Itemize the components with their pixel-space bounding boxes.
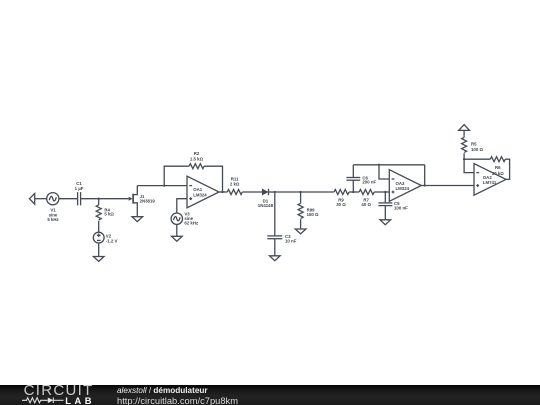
LAB text	[65, 398, 95, 405]
svg-text:40 Ω: 40 Ω	[361, 202, 371, 207]
svg-text:R5: R5	[471, 141, 477, 146]
svg-text:2 kΩ: 2 kΩ	[230, 181, 240, 186]
svg-text:100 nF: 100 nF	[394, 206, 408, 211]
V1 labels	[47, 208, 59, 222]
wire node G down to OA3 minus	[379, 165, 389, 179]
capacitor C6	[346, 165, 360, 192]
R2 labels	[190, 151, 204, 161]
R5 labels	[471, 141, 483, 152]
svg-text:10 nF: 10 nF	[285, 239, 297, 244]
OA2 labels	[483, 175, 497, 185]
capacitor C5	[378, 192, 392, 220]
wire V1 to C1	[59, 198, 78, 200]
ground GND1 (left of V1, pointing left)	[29, 193, 46, 204]
node C (OA1 output)	[221, 191, 223, 193]
wire OA3 feedback top	[353, 164, 424, 166]
wire node J to R6	[464, 158, 490, 160]
capacitor C1	[78, 192, 99, 205]
svg-text:-1.2 V: -1.2 V	[106, 238, 118, 243]
circuitlab logo text	[24, 384, 94, 397]
wire node E to R9	[301, 191, 334, 193]
svg-text:1.5 kΩ: 1.5 kΩ	[190, 156, 204, 161]
C5 labels	[394, 201, 408, 211]
resistor R7	[359, 190, 374, 195]
logo resistor+diode glyph	[21, 396, 67, 405]
op-amp OA3	[389, 170, 421, 202]
OA1 labels	[193, 187, 207, 197]
R11 labels	[230, 176, 240, 186]
OA3 labels	[396, 181, 410, 191]
svg-text:LM324: LM324	[193, 192, 207, 197]
transistor J1 (2N3819 JFET)	[129, 186, 138, 217]
footer bar	[0, 385, 540, 405]
wire R9 to junction F	[349, 191, 359, 193]
ground GND6 (below R99)	[295, 229, 306, 234]
svg-text:2N3819: 2N3819	[140, 199, 156, 204]
wire node I up to feedback top	[424, 165, 426, 186]
V3 labels	[184, 211, 199, 225]
R7 labels	[361, 198, 371, 208]
ground GND4 (below V3)	[172, 236, 183, 241]
resistor R99	[298, 192, 303, 229]
svg-text:62 kHz: 62 kHz	[184, 221, 199, 226]
op-amp OA1	[187, 176, 219, 208]
svg-text:1 µF: 1 µF	[75, 186, 84, 191]
svg-text:30 Ω: 30 Ω	[336, 202, 346, 207]
svg-text:150 Ω: 150 Ω	[307, 212, 319, 217]
resistor R6	[490, 157, 505, 162]
node A (C1/R4/gate junction)	[98, 198, 100, 200]
V2 labels	[106, 234, 118, 244]
node B (drain / feedback junction)	[163, 184, 165, 186]
node D (D1 cathode / C3 junction)	[274, 191, 276, 193]
resistor R5	[462, 137, 467, 159]
C6 labels	[362, 175, 376, 184]
wire J1 drain to OA1 inverting input	[137, 185, 164, 187]
wire OA3 output to OA2 plus	[421, 185, 474, 187]
node I (OA3 output/feedback)	[424, 184, 426, 186]
ground GND2 (below V2)	[93, 243, 104, 261]
footer line 2	[117, 397, 238, 405]
svg-text:1N4148: 1N4148	[258, 203, 274, 208]
ground GND8 (above R5, pointing up)	[459, 125, 470, 138]
wire node D to node E	[275, 191, 301, 193]
node G (feedback / minus junction)	[378, 164, 380, 166]
svg-text:LM324: LM324	[396, 186, 410, 191]
R99 labels	[307, 207, 319, 217]
D1 labels	[258, 198, 274, 208]
resistor R2	[189, 164, 204, 169]
footer line 1	[117, 387, 208, 396]
C1 labels	[75, 181, 84, 191]
node E (R99 junction)	[299, 191, 301, 193]
svg-text:LM741: LM741	[483, 180, 497, 185]
ground GND5 (below C3)	[270, 256, 281, 261]
voltage source V2	[93, 232, 104, 243]
resistor R4	[96, 199, 101, 233]
svg-text:R6: R6	[495, 165, 501, 170]
wire R6 to OA2 output	[505, 159, 509, 179]
svg-text:5 kHz: 5 kHz	[47, 217, 59, 222]
wire node J down to OA2 minus	[464, 159, 474, 172]
resistor R9	[334, 190, 349, 195]
diode D1 (1N4148)	[262, 189, 275, 196]
capacitor C3	[267, 192, 282, 256]
wire R7 to OA3 plus	[374, 191, 389, 193]
wire node A to J1 gate	[99, 198, 129, 200]
C3 labels	[285, 234, 297, 244]
ground GND7 (below C5)	[380, 220, 391, 225]
node J (R5/R6/minus junction)	[463, 158, 465, 160]
wire node B to OA1 minus	[164, 185, 187, 187]
wire feedback right vertical	[204, 166, 222, 192]
voltage source V3	[171, 199, 187, 237]
R4 labels	[104, 208, 114, 217]
svg-text:5 kΩ: 5 kΩ	[104, 212, 114, 217]
wire OA1 output	[219, 191, 227, 193]
wire R11 to D1	[242, 191, 262, 193]
resistor R11	[227, 190, 242, 195]
J1 labels	[140, 194, 156, 203]
svg-text:200 nF: 200 nF	[362, 180, 376, 185]
op-amp OA2	[474, 164, 506, 196]
svg-text:100 Ω: 100 Ω	[471, 147, 483, 152]
ground GND3 (below J1 source)	[132, 217, 143, 222]
wire feedback left vertical	[164, 166, 189, 185]
node F (R9/R7/C6 junction)	[352, 191, 354, 193]
R6 labels	[492, 165, 504, 176]
node H (C5 junction)	[384, 191, 386, 193]
R9 labels	[336, 198, 346, 208]
voltage source V1	[47, 193, 59, 205]
